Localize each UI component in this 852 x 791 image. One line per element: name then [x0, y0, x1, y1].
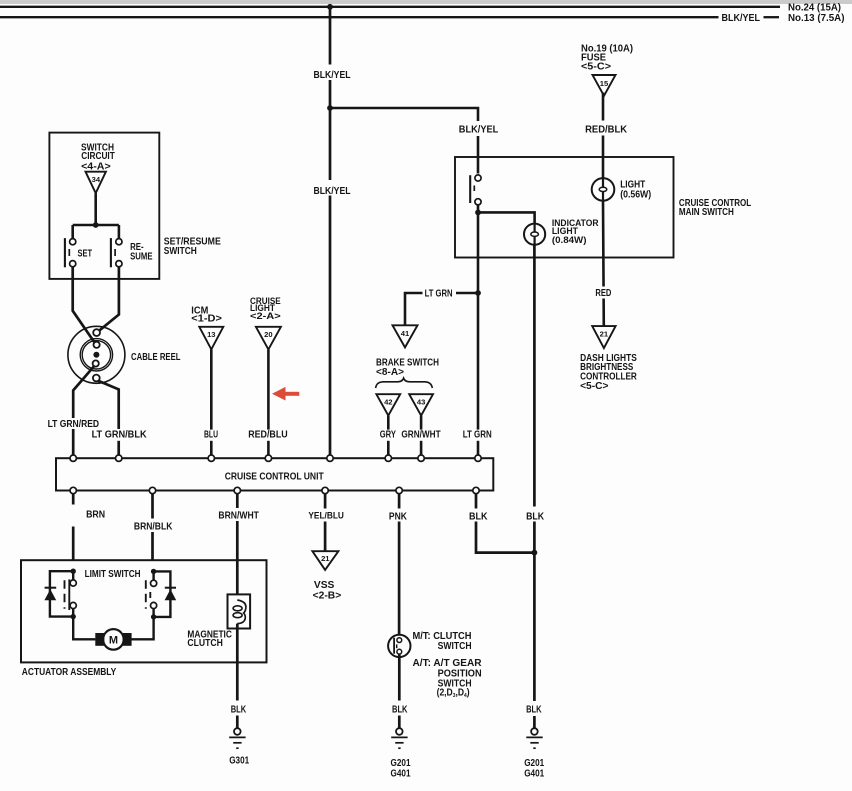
left limit switch dashed bar: [64, 580, 66, 609]
wire: RED light to dash controller: [602, 201, 605, 326]
svg-text:CLUTCH: CLUTCH: [187, 638, 223, 649]
svg-text:<2-B>: <2-B>: [313, 591, 342, 602]
svg-text:SWITCH: SWITCH: [164, 246, 197, 257]
label RED/BLU: [246, 430, 292, 441]
reel terminal 4: [93, 375, 100, 382]
node: LT GRN branch junction: [475, 290, 481, 296]
wire: reel terminal 3 down (LT GRN/RED): [73, 366, 94, 418]
motor M left brush: [95, 633, 104, 646]
RESUME switch tick: [114, 249, 116, 256]
label GRN/WHT: [400, 430, 443, 441]
pin BRN/BLK bottom: [149, 487, 155, 493]
wire: branch to cruise main switch: [330, 108, 478, 174]
fuse connector triangle 15: [593, 75, 616, 96]
svg-text:43: 43: [417, 397, 425, 406]
reel terminal 2: [94, 342, 100, 348]
wire: left diode branch: [50, 571, 73, 616]
wire: indicator light down (BLK net): [533, 245, 536, 729]
wire: ICM to unit (BLU): [210, 349, 213, 455]
connector triangle 42: [376, 394, 400, 415]
wire: to RESUME switch: [118, 225, 121, 239]
svg-text:BRN/WHT: BRN/WHT: [218, 510, 259, 521]
svg-text:No.24 (15A): No.24 (15A): [788, 3, 841, 14]
svg-text:(0.56W): (0.56W): [620, 190, 651, 201]
wire: clutch to ground: [236, 624, 239, 701]
set/resume switch box: [49, 133, 159, 279]
cruise control main switch box: [455, 157, 674, 258]
wire: tee bar: [73, 224, 119, 227]
svg-text:<2-A>: <2-A>: [250, 310, 281, 321]
actuator assembly box: [21, 560, 267, 662]
svg-text:M: M: [109, 634, 118, 646]
label LT GRN/BLK: [90, 430, 148, 441]
label LT GRN horizontal: [423, 287, 457, 299]
pin YEL/BLU bottom: [322, 487, 328, 493]
ground G301: [234, 728, 241, 735]
pin BRN/WHT bottom: [234, 487, 240, 493]
magnetic clutch box: [228, 594, 251, 628]
wire: YEL/BLU to VSS: [324, 494, 327, 509]
svg-text:LT GRN: LT GRN: [463, 430, 492, 441]
pin BLK bottom: [473, 487, 479, 493]
svg-text:13: 13: [207, 330, 215, 339]
svg-text:GRN/WHT: GRN/WHT: [401, 430, 441, 441]
right limit switch wire bottom: [152, 609, 154, 617]
label BLK/YEL upper: [312, 65, 353, 81]
label RED/BLK: [583, 121, 629, 136]
wire: main BLK/YEL vertical feed: [329, 7, 332, 455]
node: left bottom junction: [71, 614, 76, 619]
pin BRN bottom: [70, 487, 76, 493]
svg-text:<5-C>: <5-C>: [580, 381, 608, 392]
wire stub before No.13 label: [764, 16, 780, 18]
svg-text:A/T: A/T GEAR: A/T: A/T GEAR: [413, 658, 483, 669]
magnetic clutch coil loop 2: [233, 613, 242, 618]
label BLU: [202, 430, 220, 441]
label BLK right: [524, 507, 546, 522]
lamp: indicator light bulb: [524, 224, 545, 245]
pin GRY top: [385, 455, 391, 461]
right limit switch wire top: [152, 571, 154, 580]
svg-text:LIMIT SWITCH: LIMIT SWITCH: [85, 569, 141, 580]
right limit switch terminal bottom: [151, 602, 157, 608]
svg-text:GRY: GRY: [380, 430, 396, 441]
svg-text:CABLE REEL: CABLE REEL: [131, 352, 181, 363]
wire: BRN to actuator: [72, 494, 75, 505]
svg-text:ACTUATOR ASSEMBLY: ACTUATOR ASSEMBLY: [22, 667, 117, 678]
svg-text:BLK: BLK: [526, 705, 542, 716]
pin GRN/WHT top: [418, 455, 424, 461]
svg-text:BLK: BLK: [392, 705, 408, 716]
main switch terminal top: [475, 175, 481, 181]
svg-text:BLK/YEL: BLK/YEL: [314, 70, 351, 81]
clutch switch bar: [393, 638, 395, 654]
clutch switch terminal top: [397, 638, 402, 643]
main switch contact tick: [473, 186, 475, 192]
svg-text:RED: RED: [595, 288, 611, 299]
SET switch terminal top: [70, 239, 76, 245]
svg-text:<8-A>: <8-A>: [376, 367, 404, 378]
wire: left bottom to motor: [73, 617, 95, 640]
connector triangle 34: [86, 172, 106, 194]
diode D2 bar: [165, 587, 176, 589]
svg-text:(0.84W): (0.84W): [552, 235, 587, 246]
left limit switch inner bar: [68, 579, 70, 610]
ground G201/G401 left: [396, 728, 403, 735]
wire: RED/BLK fuse to light: [602, 93, 605, 179]
motor M: [103, 629, 124, 650]
wire: BRN/BLK to actuator: [151, 494, 154, 519]
svg-text:41: 41: [401, 329, 410, 338]
label RED: [593, 287, 614, 299]
wire: motor to right bottom junction: [131, 617, 153, 639]
main switch terminal bottom: [475, 199, 481, 205]
main switch contact bar: [469, 175, 471, 203]
wire: rail No.13 (7.5A): [0, 16, 719, 18]
motor M right brush: [123, 633, 132, 646]
cable reel middle ring: [80, 339, 112, 371]
node: junction feed to main switch: [327, 105, 333, 111]
svg-text:SET: SET: [78, 248, 93, 259]
diode D1: [44, 589, 56, 600]
wire: BRN/WHT to magnetic clutch: [236, 494, 239, 508]
connector triangle 20 cruise light: [256, 327, 281, 350]
pin LT GRN/BLK top: [116, 455, 122, 461]
svg-text:PNK: PNK: [389, 512, 408, 523]
node: junction on rail No.24: [327, 4, 333, 10]
wire: triangle 34 to tee: [94, 193, 97, 225]
diode D2: [165, 589, 177, 600]
right limit switch terminal top: [151, 580, 157, 586]
left limit switch wire top: [72, 571, 74, 580]
brace over brake switch connectors: [376, 378, 433, 388]
wire: 42 to unit (GRY): [387, 416, 390, 455]
wire: to SET switch: [71, 225, 74, 239]
svg-text:LT GRN: LT GRN: [425, 288, 453, 299]
pin LT GRN top: [475, 455, 481, 461]
svg-text:LT GRN/BLK: LT GRN/BLK: [92, 429, 148, 440]
svg-text:BLK: BLK: [469, 512, 488, 523]
pin BLK/YEL top: [327, 455, 333, 461]
wire: LT GRN branch to brake switch: [405, 293, 478, 325]
right limit switch inner tick: [149, 592, 151, 598]
left limit switch terminal top: [70, 580, 76, 586]
node: left top junction: [71, 569, 76, 574]
svg-text:BLK: BLK: [526, 512, 545, 523]
svg-text:SWITCH: SWITCH: [438, 641, 472, 652]
right limit switch dashed bar: [145, 580, 147, 609]
wire: reel terminal 4 down (LT GRN/BLK): [98, 381, 119, 429]
svg-text:BLK/YEL: BLK/YEL: [722, 13, 761, 24]
pin BLU top: [208, 455, 214, 461]
label LT GRN vertical: [461, 430, 494, 441]
cable reel outer ring: [68, 326, 125, 383]
svg-text:21: 21: [321, 554, 330, 563]
pin RED/BLU top: [265, 455, 271, 461]
svg-text:42: 42: [384, 397, 392, 406]
svg-text:CIRCUIT: CIRCUIT: [81, 151, 115, 162]
svg-text:G401: G401: [391, 769, 411, 780]
diode D1 bar: [45, 587, 57, 589]
label BLK/YEL at main switch: [457, 121, 501, 136]
label BLK at right G201: [524, 701, 545, 716]
svg-text:BRN/BLK: BRN/BLK: [134, 522, 173, 533]
left limit switch wire bottom: [72, 609, 74, 617]
grey scan band top: [0, 0, 852, 4]
label BLK/YEL lower: [312, 180, 353, 196]
cruise control unit box: [56, 458, 493, 490]
wire: BLK from unit to indicator BLK net: [475, 494, 478, 509]
svg-text:BRN: BRN: [86, 509, 105, 520]
clutch switch terminal bottom: [397, 649, 402, 654]
RESUME switch bar: [110, 238, 112, 267]
SET switch bar: [64, 238, 66, 267]
label GRY: [378, 430, 398, 441]
reel terminal 1: [93, 329, 100, 336]
svg-text:RED/BLK: RED/BLK: [585, 125, 628, 136]
wire: branch to indicator light: [478, 212, 535, 223]
magnetic clutch coil arc: [237, 600, 246, 624]
connector triangle 13 ICM: [199, 327, 223, 350]
wire: right diode branch: [154, 571, 171, 617]
svg-text:YEL/BLU: YEL/BLU: [308, 510, 344, 520]
wire: switch down to cruise unit (LT GRN): [477, 212, 480, 455]
RESUME switch terminal bottom: [116, 261, 122, 267]
wire: SET switch down into reel: [73, 267, 95, 342]
svg-text:15: 15: [600, 79, 609, 88]
RESUME switch terminal top: [116, 239, 122, 245]
svg-text:G401: G401: [524, 769, 544, 780]
SET switch terminal bottom: [70, 261, 76, 267]
lamp: main switch light bulb: [592, 178, 615, 201]
wire: PNK to clutch switch: [398, 494, 401, 509]
svg-text:CRUISE CONTROL UNIT: CRUISE CONTROL UNIT: [225, 471, 325, 482]
node: switch output junction: [475, 210, 481, 216]
wire: RESUME switch down into reel: [99, 267, 119, 331]
red pointer arrow: [272, 387, 286, 401]
wire: 43 to unit (GRN/WHT): [420, 416, 423, 455]
left limit switch terminal bottom: [70, 602, 76, 608]
SET switch tick: [68, 249, 70, 256]
reel terminal 3: [93, 360, 99, 366]
connector triangle 43: [409, 394, 433, 415]
node: tee junction: [93, 222, 99, 228]
svg-text:20: 20: [264, 330, 272, 339]
ground G201/G401 right: [531, 728, 538, 735]
connector triangle 41: [393, 325, 418, 347]
VSS connector triangle 21: [312, 551, 338, 570]
svg-text:RED/BLU: RED/BLU: [248, 429, 288, 440]
svg-text:SUME: SUME: [130, 252, 153, 263]
clutch switch tick: [396, 644, 398, 648]
pin PNK bottom: [396, 487, 402, 493]
svg-text:BLK: BLK: [231, 705, 247, 716]
svg-text:<1-D>: <1-D>: [191, 313, 222, 324]
svg-text:BLK/YEL: BLK/YEL: [314, 186, 351, 197]
cable reel hub dot: [93, 352, 99, 358]
wire: hot-in-ON rail No.24 (15A): [0, 6, 780, 8]
svg-text:34: 34: [92, 175, 101, 184]
pin LT GRN/RED top: [70, 455, 76, 461]
svg-text:<5-C>: <5-C>: [581, 61, 611, 72]
wire: cruise light to unit (RED/BLU): [267, 349, 270, 455]
node: right bottom junction: [151, 614, 156, 619]
svg-text:MAIN SWITCH: MAIN SWITCH: [679, 207, 734, 218]
node: right top junction: [151, 569, 156, 574]
wire below switch: [477, 205, 480, 213]
magnetic clutch coil loop 1: [233, 606, 242, 611]
svg-text:No.13 (7.5A): No.13 (7.5A): [788, 13, 845, 24]
svg-text:BLU: BLU: [204, 429, 218, 440]
svg-text:21: 21: [600, 330, 609, 339]
svg-text:BLK/YEL: BLK/YEL: [459, 125, 499, 136]
svg-text:G301: G301: [229, 756, 249, 767]
clutch switch body: [388, 635, 410, 657]
wire: clutch switch to ground: [398, 654, 401, 700]
cable reel inner ring: [82, 341, 110, 369]
connector triangle 21 dash lights: [592, 326, 615, 348]
node: BLK junction: [532, 550, 538, 556]
